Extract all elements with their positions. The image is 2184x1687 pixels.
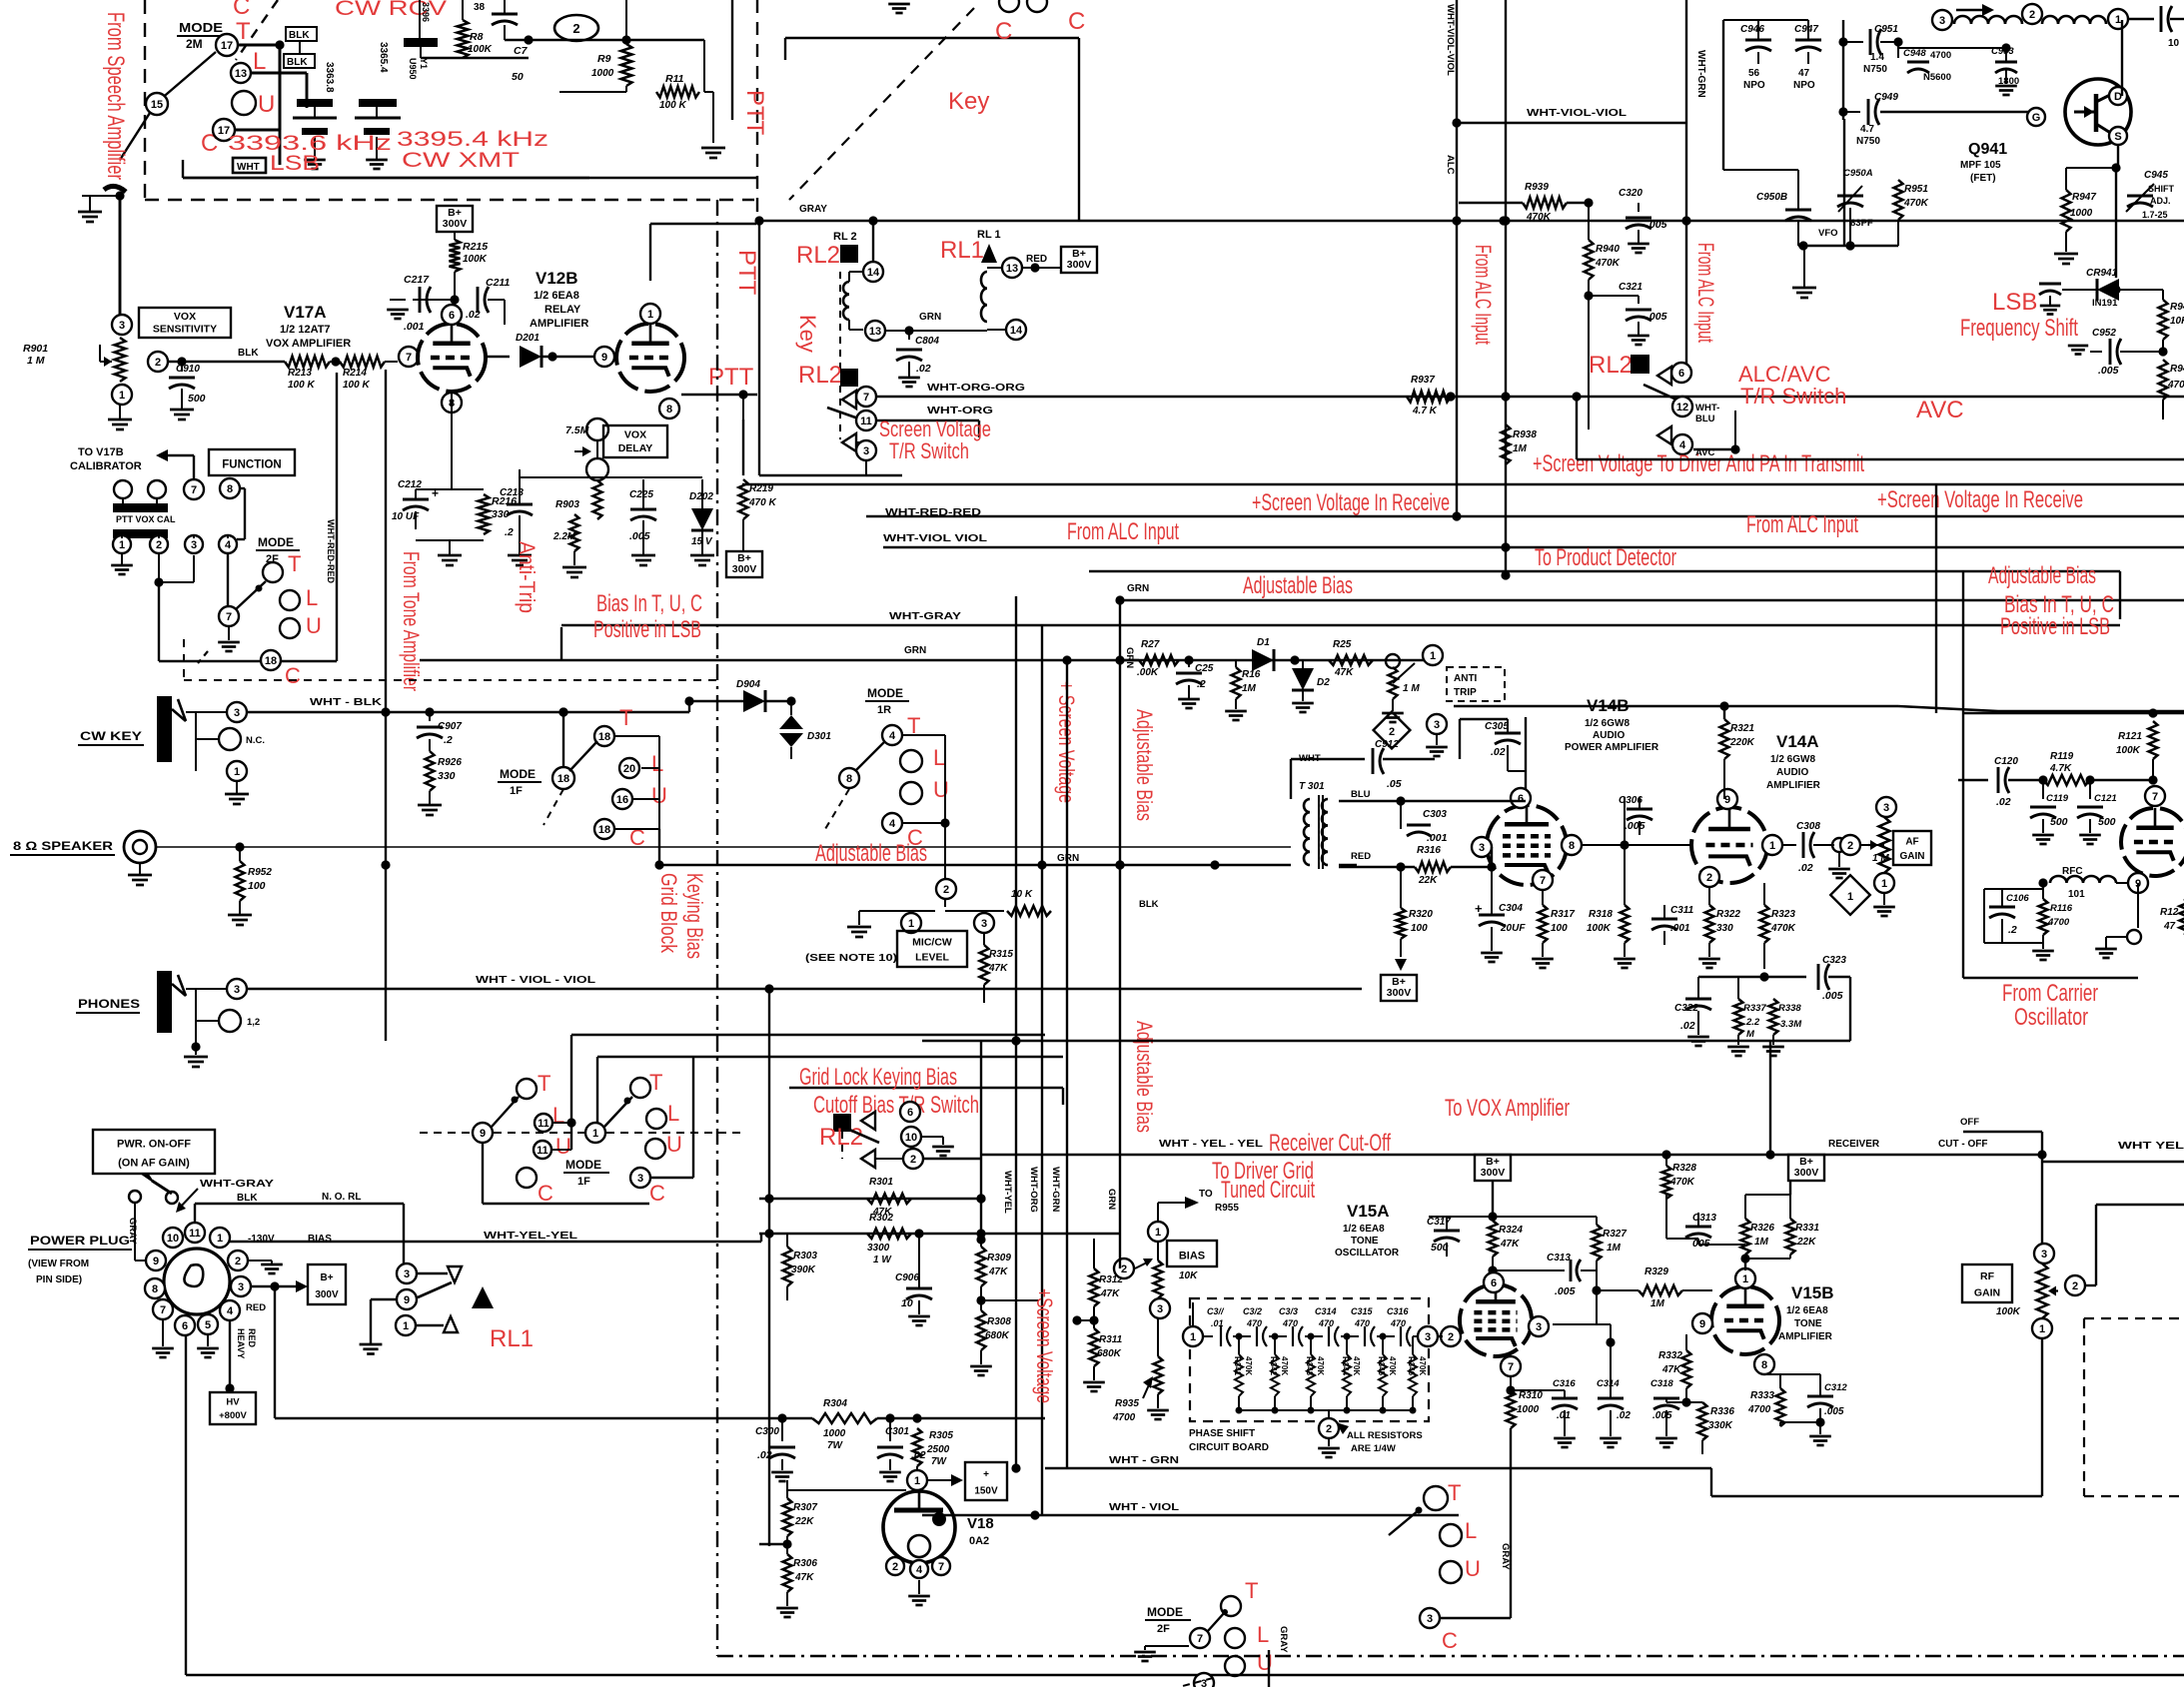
svg-text:1M: 1M <box>1242 683 1257 694</box>
svg-text:2: 2 <box>1847 840 1853 852</box>
svg-text:L: L <box>933 745 945 770</box>
svg-text:R16: R16 <box>1242 669 1261 680</box>
svg-text:AVC: AVC <box>1916 397 1964 423</box>
svg-text:-130V: -130V <box>248 1234 275 1245</box>
svg-text:4700: 4700 <box>1930 50 1951 61</box>
svg-text:1/2 6EA8: 1/2 6EA8 <box>534 290 579 302</box>
svg-text:300V: 300V <box>1794 1167 1819 1179</box>
svg-text:10: 10 <box>905 1132 917 1144</box>
svg-text:C: C <box>649 1181 665 1206</box>
svg-text:7: 7 <box>2152 791 2158 803</box>
svg-text:VOX: VOX <box>624 429 646 441</box>
svg-text:1: 1 <box>908 918 914 930</box>
svg-text:WHT - VIOL - VIOL: WHT - VIOL - VIOL <box>476 975 595 986</box>
svg-text:3: 3 <box>863 445 869 457</box>
svg-text:470K: 470K <box>1903 198 1929 209</box>
svg-text:C947: C947 <box>1794 24 1818 35</box>
svg-text:R119: R119 <box>2050 751 2074 762</box>
svg-text:1: 1 <box>2039 1323 2045 1335</box>
svg-text:R315: R315 <box>989 949 1013 960</box>
svg-text:GAIN: GAIN <box>1974 1286 2000 1298</box>
svg-text:56: 56 <box>1748 68 1760 79</box>
svg-text:C225: C225 <box>629 489 653 500</box>
svg-text:NPO: NPO <box>1743 80 1765 91</box>
svg-text:C305: C305 <box>1485 721 1509 732</box>
svg-text:T/R Switch: T/R Switch <box>1740 384 1846 409</box>
svg-text:R901: R901 <box>23 343 48 355</box>
svg-text:C952: C952 <box>2092 328 2116 339</box>
svg-text:101: 101 <box>2068 889 2085 900</box>
svg-text:300V: 300V <box>1387 987 1412 999</box>
svg-text:WHT YEL: WHT YEL <box>2118 1141 2184 1152</box>
svg-text:RL2: RL2 <box>796 242 840 269</box>
svg-text:1000: 1000 <box>823 1428 846 1439</box>
svg-text:+Screen Voltage: +Screen Voltage <box>1032 1288 1057 1403</box>
svg-text:R320: R320 <box>1409 909 1433 920</box>
svg-text:C211: C211 <box>486 277 510 289</box>
svg-text:WHT: WHT <box>237 162 260 173</box>
svg-text:R949: R949 <box>2170 364 2184 375</box>
svg-text:3: 3 <box>119 320 125 332</box>
svg-text:R329: R329 <box>1644 1266 1668 1277</box>
svg-text:3: 3 <box>238 1281 244 1293</box>
svg-text:R25: R25 <box>1333 639 1352 650</box>
svg-text:4700: 4700 <box>1112 1412 1136 1423</box>
svg-text:1: 1 <box>914 1475 920 1487</box>
svg-text:2F: 2F <box>1157 1623 1170 1635</box>
svg-text:3: 3 <box>1157 1303 1163 1315</box>
svg-text:GAIN: GAIN <box>1900 851 1925 862</box>
svg-text:9: 9 <box>153 1256 159 1267</box>
svg-text:50: 50 <box>512 71 524 83</box>
svg-text:AF: AF <box>1905 836 1918 847</box>
svg-text:1,2: 1,2 <box>247 1017 260 1028</box>
svg-text:MIC/CW: MIC/CW <box>912 936 952 948</box>
svg-text:R343: R343 <box>1305 1356 1314 1376</box>
svg-text:MODE: MODE <box>500 767 536 781</box>
svg-text:470K: 470K <box>1388 1356 1397 1375</box>
svg-text:1F: 1F <box>577 1176 590 1188</box>
svg-text:47K: 47K <box>1334 667 1354 678</box>
svg-text:N5600: N5600 <box>1923 72 1951 83</box>
svg-text:T: T <box>619 705 632 730</box>
svg-text:3363.8: 3363.8 <box>324 62 335 93</box>
svg-text:U: U <box>306 613 322 638</box>
svg-text:PTT: PTT <box>708 364 754 391</box>
svg-text:V17A: V17A <box>284 303 327 322</box>
svg-text:6: 6 <box>1491 1277 1497 1289</box>
svg-text:TO: TO <box>1199 1189 1213 1200</box>
svg-text:11: 11 <box>189 1228 201 1240</box>
svg-text:PTT: PTT <box>733 250 760 296</box>
svg-text:1: 1 <box>217 1233 223 1245</box>
svg-text:.005: .005 <box>2098 365 2119 377</box>
svg-text:POWER AMPLIFIER: POWER AMPLIFIER <box>1565 742 1659 753</box>
svg-text:R951: R951 <box>1904 184 1928 195</box>
svg-text:C912: C912 <box>1375 739 1399 750</box>
svg-text:BLK: BLK <box>289 30 310 41</box>
svg-text:HEAVY: HEAVY <box>236 1328 246 1358</box>
svg-text:10: 10 <box>2168 38 2180 49</box>
svg-text:470K: 470K <box>1316 1356 1325 1375</box>
svg-text:To Product Detector: To Product Detector <box>1535 544 1676 571</box>
svg-text:2: 2 <box>155 357 161 369</box>
svg-text:SHIFT: SHIFT <box>2148 184 2175 194</box>
svg-text:7.5M: 7.5M <box>565 424 589 436</box>
svg-text:2: 2 <box>572 21 579 36</box>
svg-text:1/2 6GW8: 1/2 6GW8 <box>1770 754 1815 765</box>
svg-text:GRN: GRN <box>904 645 926 656</box>
svg-text:2: 2 <box>1389 726 1395 738</box>
svg-text:RECEIVER: RECEIVER <box>1828 1139 1880 1150</box>
svg-text:C316: C316 <box>1387 1306 1410 1316</box>
svg-text:2: 2 <box>1121 1264 1127 1275</box>
svg-text:R121: R121 <box>2118 731 2142 742</box>
svg-text:R309: R309 <box>987 1253 1011 1264</box>
svg-text:100K: 100K <box>1996 1306 2021 1317</box>
svg-text:2: 2 <box>943 884 949 896</box>
svg-text:GRAY: GRAY <box>1278 1626 1289 1653</box>
svg-text:ALL RESISTORS: ALL RESISTORS <box>1347 1430 1423 1441</box>
svg-text:C3/3: C3/3 <box>1279 1306 1298 1316</box>
svg-text:22K: 22K <box>794 1516 814 1527</box>
svg-text:WHT-: WHT- <box>1695 403 1719 414</box>
svg-text:470K: 470K <box>1244 1356 1253 1375</box>
svg-text:100 K: 100 K <box>659 100 686 111</box>
svg-text:13: 13 <box>869 326 881 338</box>
svg-text:R316: R316 <box>1417 845 1441 856</box>
svg-text:3: 3 <box>1536 1321 1542 1333</box>
svg-text:R341: R341 <box>1233 1356 1242 1376</box>
svg-text:3395.4 kHz: 3395.4 kHz <box>397 128 548 151</box>
svg-text:6: 6 <box>1678 368 1684 380</box>
svg-text:RED: RED <box>246 1302 266 1313</box>
svg-text:3: 3 <box>404 1268 410 1280</box>
svg-text:Adjustable Bias: Adjustable Bias <box>1132 709 1157 821</box>
svg-text:VOX: VOX <box>174 311 196 323</box>
svg-text:OSCILLATOR: OSCILLATOR <box>1335 1248 1400 1259</box>
svg-text:470: 470 <box>1318 1318 1334 1328</box>
svg-text:2: 2 <box>235 1256 241 1267</box>
svg-text:1/2 12AT7: 1/2 12AT7 <box>280 324 331 336</box>
svg-text:7: 7 <box>226 611 232 623</box>
svg-text:R955: R955 <box>1215 1203 1239 1214</box>
svg-text:C308: C308 <box>1796 821 1820 832</box>
svg-text:20: 20 <box>623 763 635 775</box>
svg-text:To VOX Amplifier: To VOX Amplifier <box>1445 1095 1570 1122</box>
svg-text:TONE: TONE <box>1351 1236 1379 1247</box>
svg-text:L: L <box>1465 1518 1477 1543</box>
svg-text:+: + <box>432 486 439 500</box>
svg-text:R939: R939 <box>1525 182 1549 193</box>
svg-text:WHT-ORG: WHT-ORG <box>1028 1167 1039 1213</box>
svg-text:R323: R323 <box>1771 909 1795 920</box>
svg-text:From Carrier: From Carrier <box>2002 980 2098 1007</box>
svg-text:13: 13 <box>1006 263 1018 275</box>
svg-text:1F: 1F <box>510 785 523 797</box>
svg-text:C304: C304 <box>1499 903 1523 914</box>
svg-text:11: 11 <box>537 1145 548 1157</box>
svg-text:10 K: 10 K <box>1011 889 1033 900</box>
svg-text:8: 8 <box>227 483 233 495</box>
svg-text:D1: D1 <box>1257 637 1270 648</box>
svg-text:470: 470 <box>1354 1318 1370 1328</box>
svg-text:300V: 300V <box>1481 1167 1506 1179</box>
svg-text:Adjustable Bias: Adjustable Bias <box>1988 562 2096 589</box>
svg-text:Key: Key <box>948 88 989 115</box>
svg-text:100 K: 100 K <box>288 380 315 391</box>
svg-text:C314: C314 <box>1597 1378 1620 1389</box>
svg-text:18: 18 <box>598 824 610 836</box>
svg-text:2500: 2500 <box>926 1444 950 1455</box>
svg-text:AUDIO: AUDIO <box>1593 730 1625 741</box>
svg-text:R344: R344 <box>1341 1356 1350 1376</box>
svg-text:RL1: RL1 <box>940 237 984 264</box>
svg-text:8: 8 <box>152 1283 158 1295</box>
svg-text:47K: 47K <box>1500 1239 1520 1250</box>
svg-text:8: 8 <box>846 773 852 785</box>
svg-text:WHT - YEL - YEL: WHT - YEL - YEL <box>1159 1139 1263 1150</box>
svg-text:47K: 47K <box>794 1572 814 1583</box>
svg-text:100 K: 100 K <box>343 380 370 391</box>
svg-text:1: 1 <box>403 1320 409 1332</box>
svg-text:CW KEY: CW KEY <box>80 729 142 743</box>
svg-text:.001: .001 <box>404 321 425 333</box>
svg-text:C: C <box>995 18 1012 45</box>
svg-text:3: 3 <box>637 1173 643 1185</box>
svg-text:1: 1 <box>234 766 240 778</box>
svg-text:R926: R926 <box>438 757 462 768</box>
svg-text:1/2 6EA8: 1/2 6EA8 <box>1786 1305 1828 1316</box>
svg-text:M: M <box>1746 1029 1755 1040</box>
svg-text:2.2: 2.2 <box>1745 1017 1760 1028</box>
svg-text:.2: .2 <box>1197 678 1206 690</box>
svg-text:680K: 680K <box>985 1330 1010 1341</box>
svg-text:WHT-GRAY: WHT-GRAY <box>200 1179 274 1190</box>
svg-text:PWR. ON-OFF: PWR. ON-OFF <box>117 1139 191 1151</box>
svg-text:R310: R310 <box>1519 1390 1543 1401</box>
svg-text:MODE: MODE <box>565 1158 601 1172</box>
svg-text:D2: D2 <box>1317 677 1330 688</box>
svg-text:C315: C315 <box>1351 1306 1374 1316</box>
svg-text:15: 15 <box>151 99 163 111</box>
svg-text:1/2 6EA8: 1/2 6EA8 <box>1343 1224 1385 1235</box>
svg-text:3: 3 <box>1425 1331 1431 1343</box>
svg-text:C301: C301 <box>885 1426 909 1437</box>
svg-text:WHT - VIOL: WHT - VIOL <box>1109 1502 1179 1513</box>
svg-text:R342: R342 <box>1269 1356 1278 1376</box>
svg-text:100K: 100K <box>2116 745 2141 756</box>
svg-text:C3/2: C3/2 <box>1243 1306 1262 1316</box>
svg-text:Tuned Circuit: Tuned Circuit <box>1221 1177 1315 1204</box>
svg-text:470K: 470K <box>1352 1356 1361 1375</box>
svg-text:3: 3 <box>1427 1613 1433 1625</box>
svg-text:1: 1 <box>1190 1331 1196 1343</box>
svg-text:RED: RED <box>1026 254 1047 265</box>
svg-text:470K: 470K <box>1418 1356 1427 1375</box>
svg-text:C25: C25 <box>1195 663 1214 674</box>
svg-text:18: 18 <box>598 731 610 743</box>
svg-text:VFO: VFO <box>1818 228 1838 239</box>
svg-text:2: 2 <box>2029 9 2035 21</box>
svg-text:RL1: RL1 <box>490 1325 534 1352</box>
svg-text:R333: R333 <box>1750 1390 1774 1401</box>
svg-text:2: 2 <box>892 1561 898 1573</box>
svg-text:17: 17 <box>221 40 233 52</box>
svg-text:C217: C217 <box>404 274 430 286</box>
svg-text:TONE: TONE <box>1794 1318 1822 1329</box>
svg-text:.001: .001 <box>1670 923 1690 934</box>
svg-text:2: 2 <box>1448 1331 1454 1343</box>
svg-text:100K: 100K <box>468 44 493 55</box>
svg-text:MODE: MODE <box>179 20 223 35</box>
svg-text:3: 3 <box>1479 842 1485 854</box>
svg-text:BIAS: BIAS <box>308 1234 332 1245</box>
svg-text:WHT-VIOL-VIOL: WHT-VIOL-VIOL <box>1527 108 1627 119</box>
svg-text:T: T <box>1245 1578 1258 1603</box>
svg-text:1 M: 1 M <box>27 355 45 367</box>
svg-text:9: 9 <box>601 352 607 364</box>
svg-text:Grid Block: Grid Block <box>656 873 681 954</box>
svg-text:CALIBRATOR: CALIBRATOR <box>70 460 142 472</box>
svg-text:100K: 100K <box>463 254 488 265</box>
svg-text:R8: R8 <box>470 31 484 43</box>
svg-text:R307: R307 <box>793 1502 817 1513</box>
svg-text:T/R Switch: T/R Switch <box>889 438 969 463</box>
svg-text:C950A: C950A <box>1843 168 1873 179</box>
svg-text:(SEE NOTE 10): (SEE NOTE 10) <box>805 953 897 964</box>
svg-text:TRIP: TRIP <box>1454 687 1477 698</box>
svg-text:.02: .02 <box>1491 746 1506 758</box>
svg-text:2: 2 <box>910 1154 916 1166</box>
svg-text:C312: C312 <box>1824 1382 1847 1393</box>
svg-text:WHT-YEL: WHT-YEL <box>1002 1171 1013 1214</box>
svg-text:L: L <box>552 1103 564 1128</box>
svg-text:Positive in LSB: Positive in LSB <box>2000 613 2110 640</box>
svg-text:MPF 105: MPF 105 <box>1960 160 2001 171</box>
svg-text:BLK: BLK <box>287 57 308 68</box>
svg-text:7: 7 <box>406 352 412 364</box>
svg-text:3: 3 <box>1939 15 1945 27</box>
svg-text:BLU: BLU <box>1351 789 1371 800</box>
svg-text:2M: 2M <box>186 37 203 51</box>
svg-text:1M: 1M <box>1754 1237 1769 1248</box>
svg-text:.01: .01 <box>1211 1318 1224 1328</box>
svg-text:8: 8 <box>1761 1359 1767 1371</box>
svg-text:1R: 1R <box>877 704 891 716</box>
svg-text:R338: R338 <box>1778 1003 1801 1014</box>
svg-text:83PF: 83PF <box>1850 218 1873 229</box>
svg-text:4: 4 <box>225 539 232 551</box>
svg-text:WHT - GRN: WHT - GRN <box>1109 1455 1179 1466</box>
svg-text:RED: RED <box>1351 851 1371 862</box>
svg-text:47: 47 <box>2163 921 2176 932</box>
svg-text:L: L <box>667 1101 679 1126</box>
svg-text:C316: C316 <box>1553 1378 1576 1389</box>
svg-text:7W: 7W <box>931 1456 948 1467</box>
svg-text:1000: 1000 <box>1517 1404 1540 1415</box>
svg-text:.02: .02 <box>1680 1020 1695 1032</box>
svg-text:(FET): (FET) <box>1970 173 1996 184</box>
svg-text:4: 4 <box>916 1564 923 1576</box>
svg-text:WHT-RED-RED: WHT-RED-RED <box>326 519 336 583</box>
svg-text:3: 3 <box>234 707 240 719</box>
svg-text:3: 3 <box>1434 719 1440 731</box>
svg-text:.2: .2 <box>2008 924 2017 936</box>
svg-text:14: 14 <box>867 267 880 279</box>
svg-text:N750: N750 <box>1863 64 1887 75</box>
svg-text:R935: R935 <box>1115 1398 1139 1409</box>
svg-text:1M: 1M <box>1650 1298 1665 1309</box>
svg-text:V15B: V15B <box>1791 1283 1834 1302</box>
svg-text:4.7K: 4.7K <box>2049 763 2072 774</box>
svg-text:WHT-GRN: WHT-GRN <box>1695 50 1706 98</box>
svg-text:AMPLIFIER: AMPLIFIER <box>1778 1331 1833 1342</box>
svg-text:1: 1 <box>2115 14 2121 26</box>
svg-text:C951: C951 <box>1874 24 1898 35</box>
svg-text:4: 4 <box>889 818 896 830</box>
svg-text:220K: 220K <box>1729 737 1755 748</box>
svg-text:From ALC Input: From ALC Input <box>1693 243 1718 343</box>
svg-text:7: 7 <box>1540 875 1546 887</box>
svg-text:6: 6 <box>449 310 455 322</box>
svg-text:11: 11 <box>538 1118 549 1130</box>
svg-text:500: 500 <box>2050 816 2068 828</box>
svg-text:2.2M: 2.2M <box>552 531 576 542</box>
svg-text:C311: C311 <box>1670 905 1694 916</box>
svg-text:R940: R940 <box>1596 244 1620 255</box>
svg-text:1/2 6GW8: 1/2 6GW8 <box>1585 718 1630 729</box>
svg-text:PHASE SHIFT: PHASE SHIFT <box>1189 1428 1255 1439</box>
svg-text:38: 38 <box>474 2 486 13</box>
svg-text:R306: R306 <box>793 1558 817 1569</box>
svg-text:16: 16 <box>616 794 628 806</box>
svg-text:R308: R308 <box>987 1316 1011 1327</box>
svg-text:NPO: NPO <box>1793 80 1815 91</box>
svg-text:100: 100 <box>248 880 266 892</box>
svg-text:470K: 470K <box>1669 1177 1695 1188</box>
svg-text:POWER PLUG: POWER PLUG <box>30 1234 130 1248</box>
svg-text:V15A: V15A <box>1347 1202 1390 1221</box>
svg-text:WHT-VIOL VIOL: WHT-VIOL VIOL <box>883 533 987 544</box>
svg-text:C949: C949 <box>1874 92 1898 103</box>
svg-text:R9: R9 <box>597 53 611 65</box>
svg-text:1: 1 <box>1155 1227 1161 1239</box>
svg-text:V18: V18 <box>967 1515 994 1532</box>
svg-text:VOX AMPLIFIER: VOX AMPLIFIER <box>266 338 351 350</box>
svg-text:Q941: Q941 <box>1968 141 2007 158</box>
svg-text:PTT: PTT <box>741 90 768 136</box>
svg-text:+Screen Voltage To Driver And: +Screen Voltage To Driver And PA In Tran… <box>1533 450 1864 477</box>
svg-text:C119: C119 <box>2046 793 2069 804</box>
svg-text:+: + <box>983 1469 989 1480</box>
svg-text:.005: .005 <box>1555 1285 1576 1297</box>
svg-text:C120: C120 <box>1994 756 2018 767</box>
svg-text:470: 470 <box>1390 1318 1406 1328</box>
svg-text:B+: B+ <box>320 1272 333 1283</box>
svg-text:C3//: C3// <box>1207 1306 1225 1316</box>
svg-text:GRN: GRN <box>1106 1189 1117 1210</box>
svg-text:.00K: .00K <box>1137 667 1159 678</box>
svg-text:300V: 300V <box>443 218 468 230</box>
svg-text:7W: 7W <box>827 1440 844 1451</box>
svg-text:C907: C907 <box>438 721 462 732</box>
svg-text:100: 100 <box>1411 923 1428 934</box>
svg-text:.02: .02 <box>1617 1410 1631 1421</box>
svg-text:D201: D201 <box>516 333 540 344</box>
svg-text:C314: C314 <box>1315 1306 1337 1316</box>
svg-text:2: 2 <box>156 539 162 551</box>
